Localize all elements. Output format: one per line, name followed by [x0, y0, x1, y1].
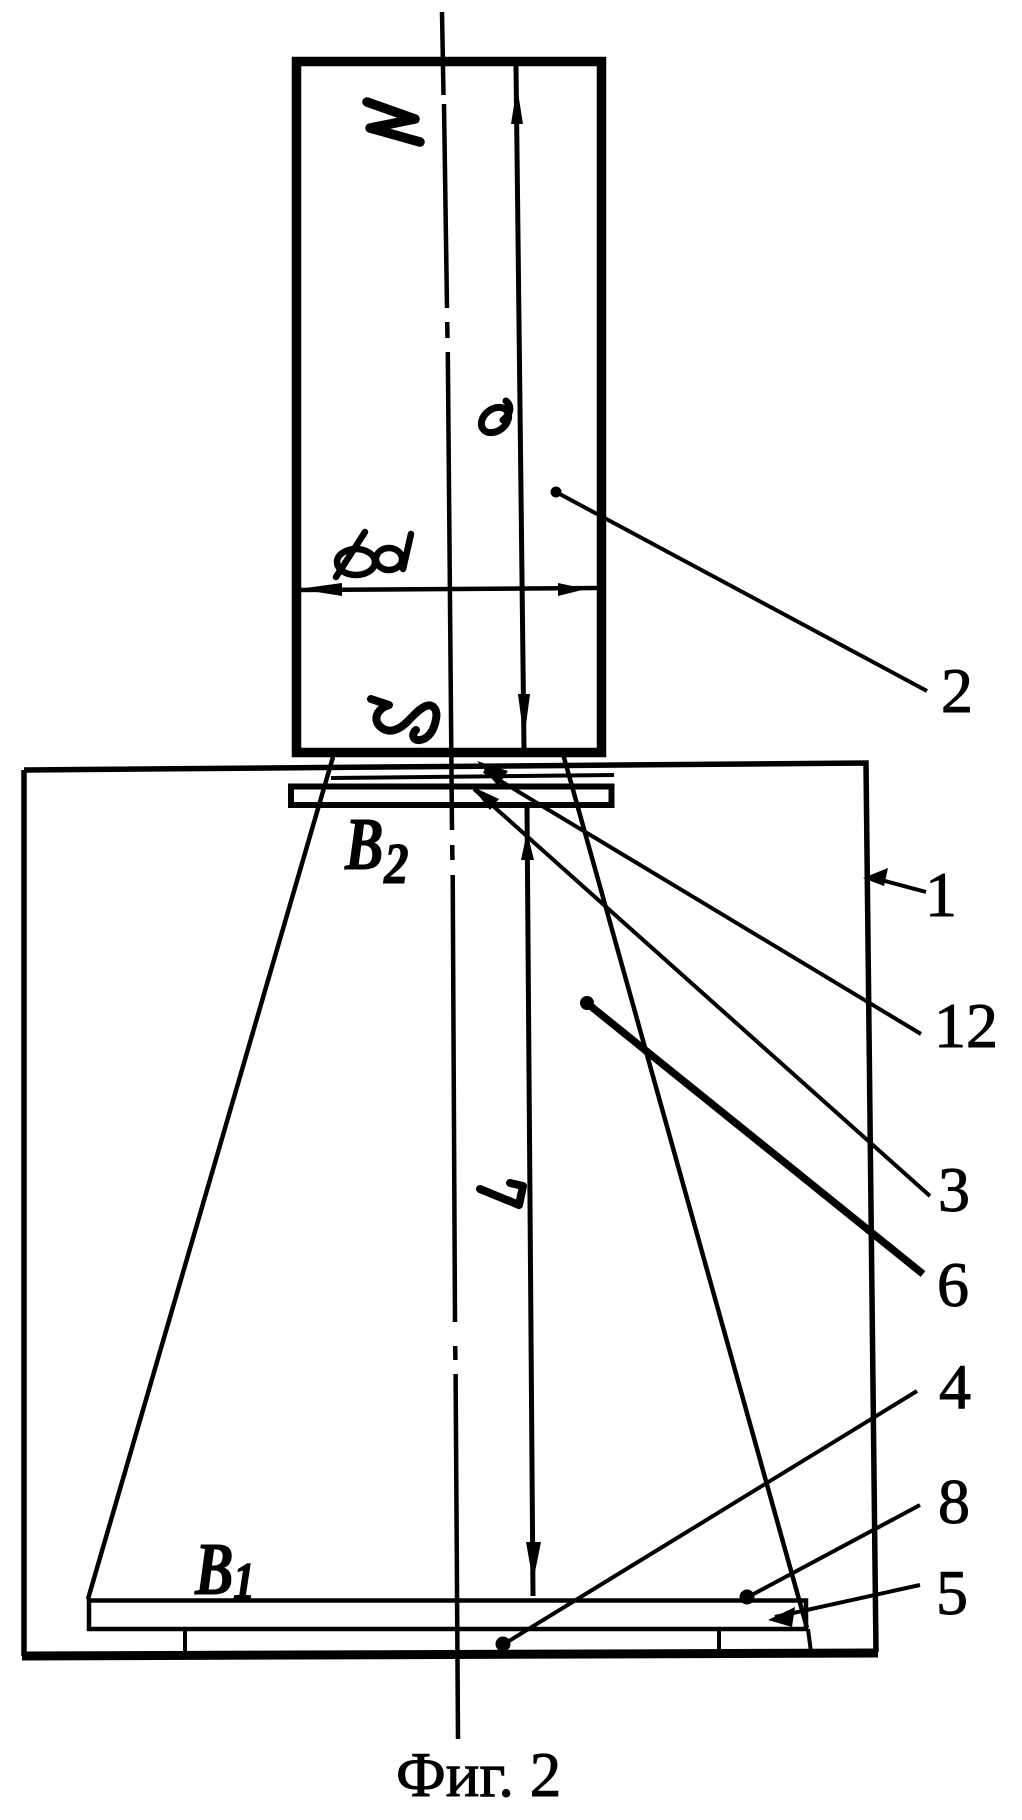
svg-text:2: 2: [941, 655, 973, 726]
pointer rod 6 with dot: [580, 996, 594, 1010]
dimension L lower arrowhead: [526, 1542, 541, 1582]
upper plate 3: [291, 787, 612, 806]
leader to 2 with dot: [551, 487, 562, 498]
phi-d left arrowhead: [298, 583, 342, 596]
center axis (dash-dot): [442, 12, 458, 1739]
label B1: [194, 1529, 233, 1610]
svg-text:12: 12: [934, 990, 998, 1061]
leader to 1 with tick arrow: [863, 868, 888, 886]
label L: [480, 1183, 523, 1205]
label d: [376, 548, 402, 570]
compensating strip 12: [331, 775, 614, 778]
svg-text:6: 6: [937, 1249, 969, 1320]
label S: [371, 699, 436, 740]
svg-text:B: B: [344, 804, 383, 885]
dimension L upper arrowhead: [521, 832, 534, 860]
svg-text:3: 3: [938, 1154, 970, 1225]
housing bottom wall: [22, 1653, 878, 1656]
label B2: [344, 804, 383, 885]
svg-text:1: 1: [233, 1553, 255, 1610]
bottom plate right edge drop: [808, 1629, 811, 1652]
magnet 2 (N-S pole body): [297, 62, 602, 753]
label a: [476, 402, 513, 438]
label phi: [337, 549, 375, 575]
leader to 3 with arrowhead: [471, 786, 499, 810]
svg-text:5: 5: [936, 1557, 968, 1628]
leader to 5 with arrowhead: [775, 1585, 920, 1617]
support leg right: [717, 1630, 721, 1654]
leader to 8 with dot: [748, 1505, 920, 1597]
svg-text:8: 8: [938, 1466, 970, 1537]
dimension a lower arrowhead: [518, 694, 530, 740]
dimension a line: [516, 66, 524, 749]
phi-d right arrowhead: [558, 583, 586, 596]
field cone left line: [88, 757, 333, 1599]
svg-text:1: 1: [925, 859, 957, 930]
dimension phi-d line: [297, 588, 601, 590]
leader to 12 with arrowhead: [477, 761, 508, 786]
dimension a upper arrowhead: [511, 86, 523, 124]
svg-text:Фиг. 2: Фиг. 2: [396, 1740, 561, 1810]
label N: [367, 102, 420, 142]
dimension L line: [527, 808, 533, 1596]
support leg left: [183, 1630, 187, 1654]
housing 1 (outer box): [24, 763, 876, 1656]
svg-text:B: B: [194, 1529, 233, 1610]
field cone right line: [563, 754, 807, 1628]
svg-text:2: 2: [383, 831, 409, 896]
leader to 4 with dot: [504, 1391, 917, 1644]
bottom plate 4 (B1): [89, 1601, 806, 1630]
svg-text:4: 4: [939, 1351, 971, 1422]
